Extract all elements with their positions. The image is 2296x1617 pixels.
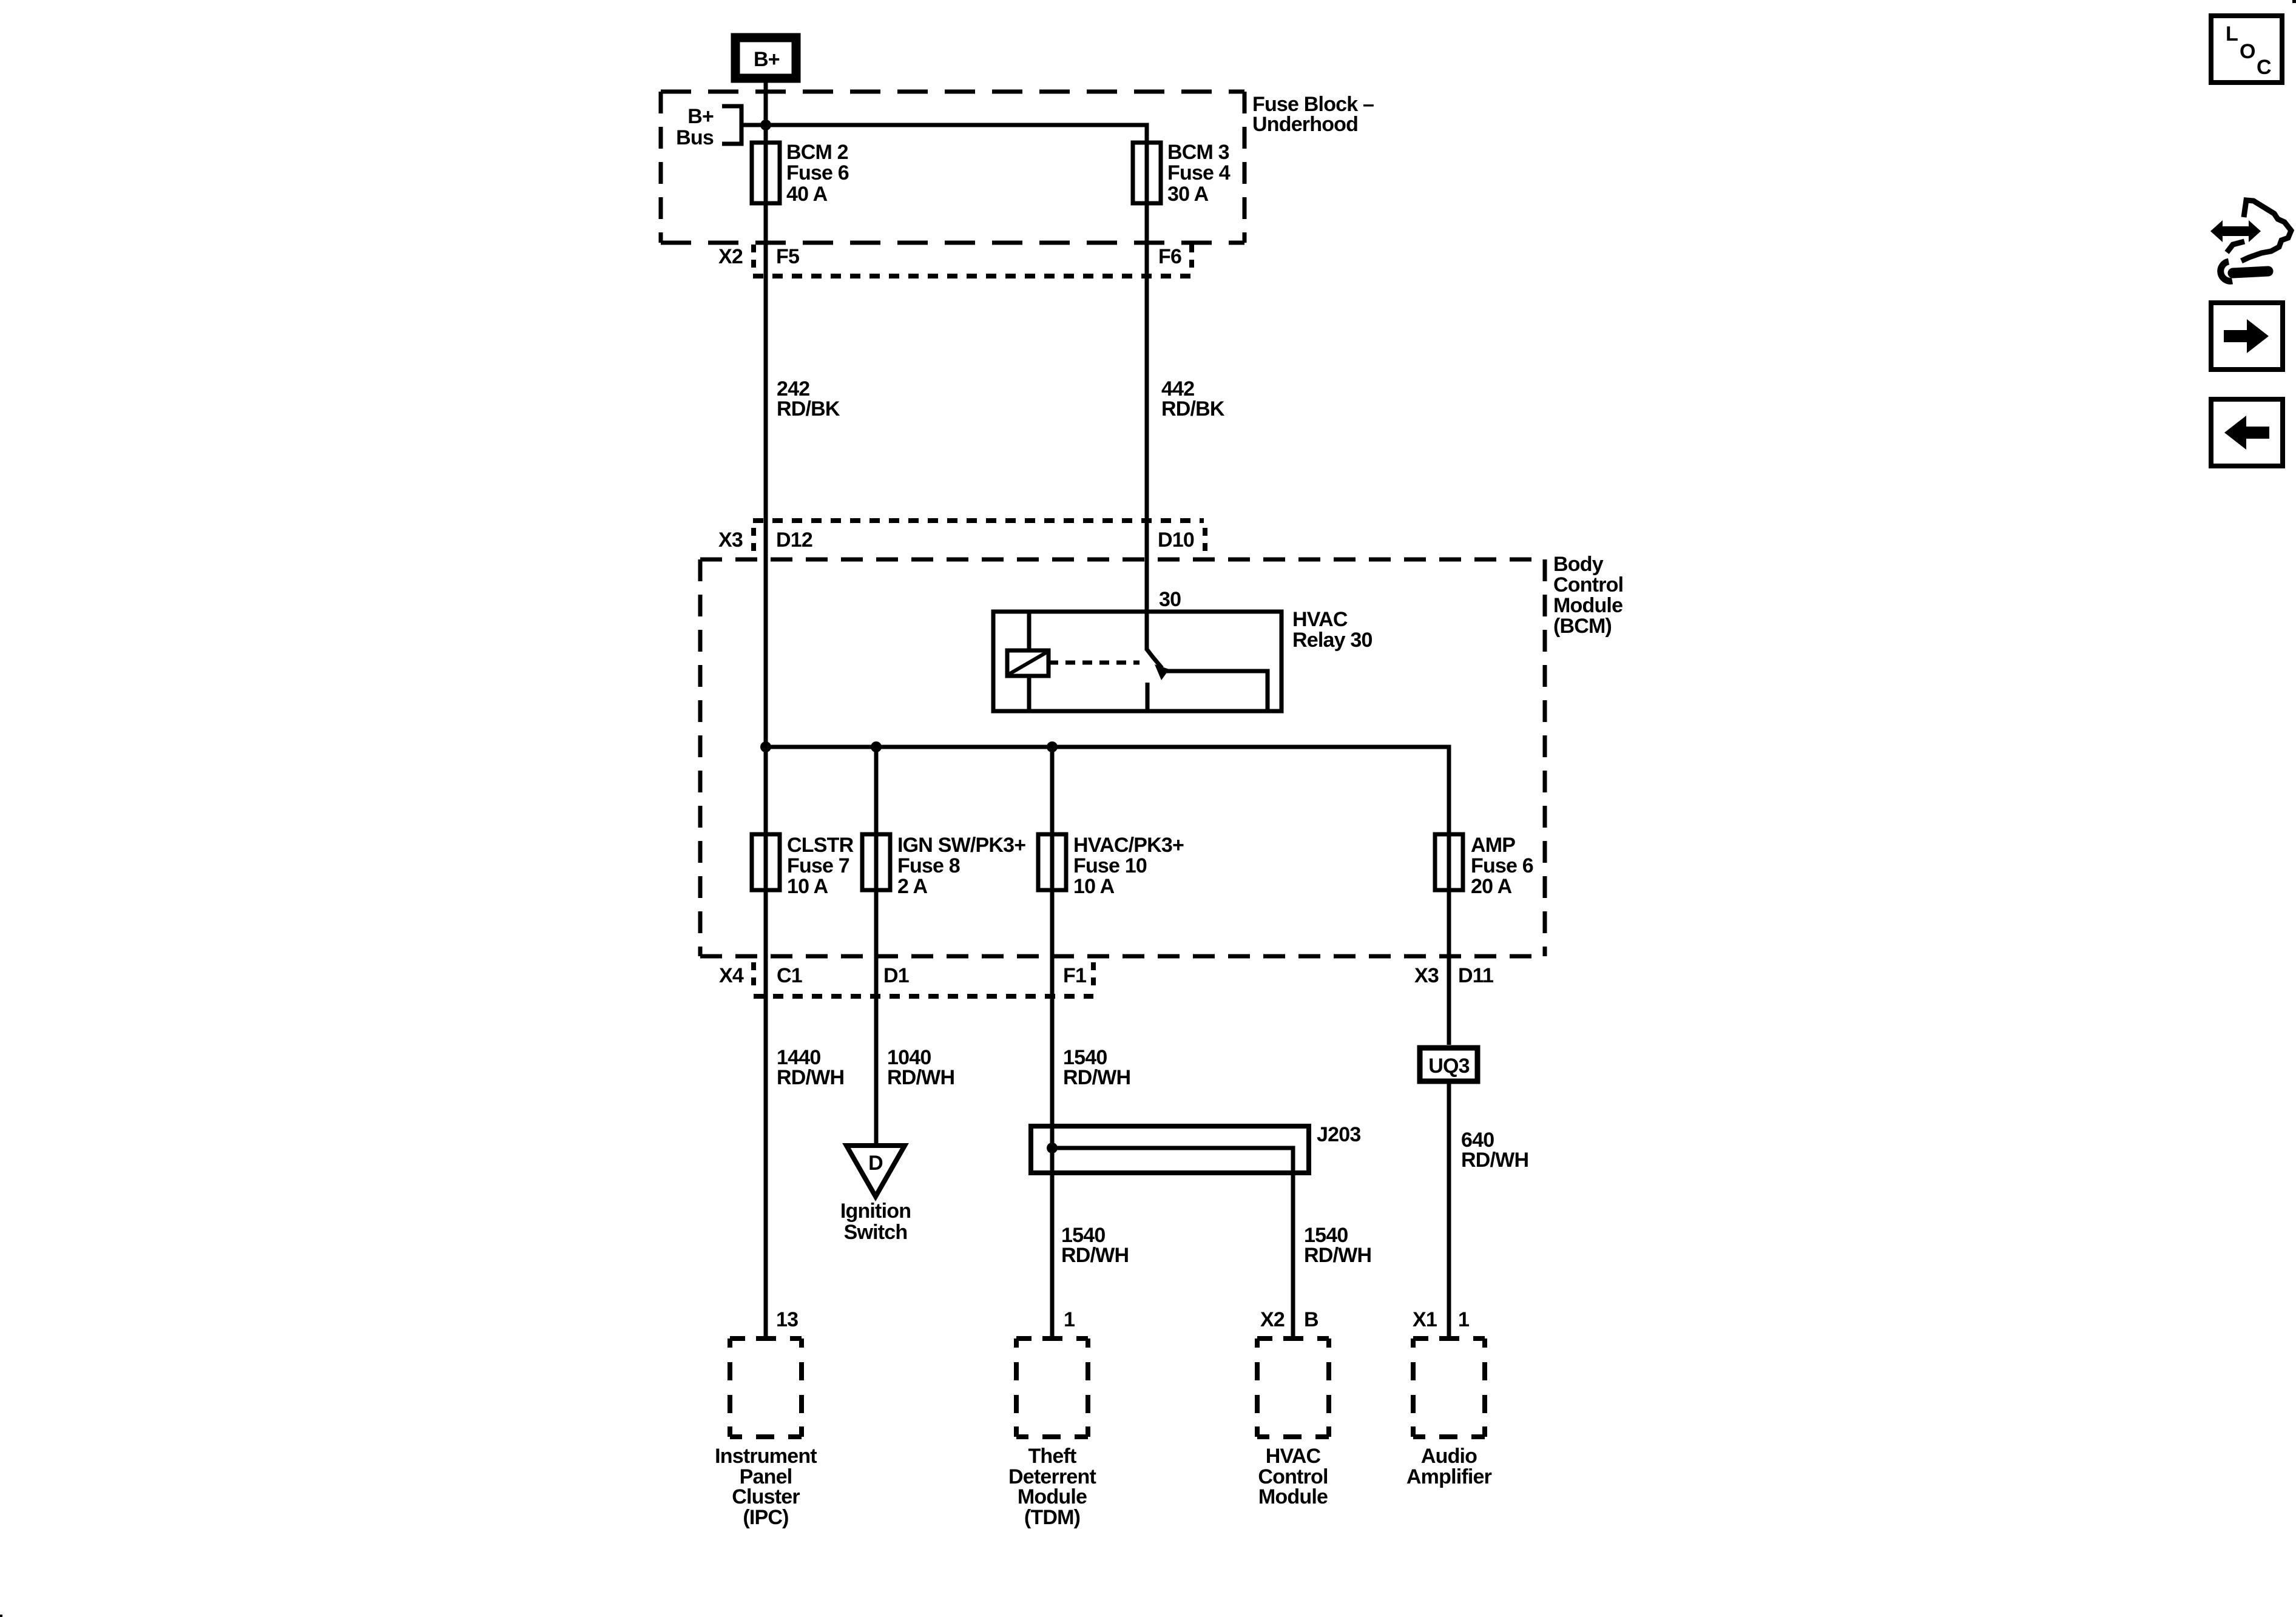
svg-text:C1: C1	[777, 964, 802, 987]
svg-text:Fuse 10: Fuse 10	[1073, 854, 1147, 877]
svg-text:D12: D12	[776, 528, 812, 552]
node: B+ bus junction	[760, 120, 771, 130]
svg-text:Audio: Audio	[1421, 1445, 1477, 1468]
wire label 1540 RD/WH	[1063, 1046, 1130, 1089]
wire label 1040 RD/WH	[887, 1046, 954, 1089]
connector box Audio Amplifier	[1406, 1338, 1492, 1488]
svg-text:RD/BK: RD/BK	[1161, 397, 1225, 420]
svg-text:RD/WH: RD/WH	[1063, 1066, 1130, 1089]
terminal bar HVAC	[1283, 1336, 1303, 1341]
wire label 1540 RD/WH (TDM leg)	[1061, 1224, 1129, 1267]
terminal bar Audio	[1439, 1336, 1459, 1341]
svg-text:AMP: AMP	[1471, 834, 1515, 857]
wire: B+ bus to BCM 3 fuse column	[766, 125, 1147, 650]
connector row X3 (D12 / D10)	[718, 521, 1205, 553]
svg-text:C: C	[2257, 56, 2271, 79]
svg-text:Fuse 7: Fuse 7	[787, 854, 849, 877]
wire label 242 RD/BK	[777, 377, 840, 420]
svg-text:Module: Module	[1258, 1485, 1328, 1508]
option code UQ3 box	[1420, 1048, 1477, 1081]
svg-text:CLSTR: CLSTR	[787, 834, 854, 857]
svg-text:HVAC: HVAC	[1266, 1445, 1321, 1468]
svg-text:F5: F5	[776, 245, 799, 268]
svg-text:Ignition: Ignition	[840, 1200, 911, 1223]
svg-text:J203: J203	[1317, 1123, 1360, 1146]
svg-text:B+: B+	[687, 105, 714, 128]
wire label 1540 RD/WH (HVAC leg)	[1304, 1224, 1371, 1267]
svg-text:Cluster: Cluster	[732, 1485, 800, 1508]
svg-text:Fuse 8: Fuse 8	[897, 854, 960, 877]
svg-text:Module: Module	[1553, 594, 1622, 617]
next-page arrow box	[2211, 303, 2283, 370]
svg-text:UQ3: UQ3	[1428, 1055, 1470, 1078]
svg-text:RD/WH: RD/WH	[1304, 1244, 1371, 1267]
svg-text:RD/WH: RD/WH	[1461, 1149, 1528, 1172]
wire: BCM internal bus to AMP fuse	[766, 747, 1449, 1045]
svg-text:40 A: 40 A	[786, 183, 828, 206]
node: bus junction fuse 10	[1047, 741, 1058, 752]
speck top-right	[2292, 0, 2296, 3]
svg-text:B: B	[1304, 1308, 1319, 1331]
svg-text:X1: X1	[1413, 1308, 1437, 1331]
relay HVAC Relay 30	[993, 608, 1373, 711]
connector box Theft Deterrent Module	[1008, 1338, 1096, 1529]
svg-text:30 A: 30 A	[1167, 183, 1209, 206]
fuse CLSTR Fuse 7 10 A	[752, 834, 854, 898]
pin X1 1 labels (Audio)	[1413, 1308, 1469, 1331]
svg-text:O: O	[2240, 40, 2255, 63]
svg-text:D1: D1	[883, 964, 909, 987]
svg-text:RD/BK: RD/BK	[777, 397, 840, 420]
svg-text:X4: X4	[719, 964, 744, 987]
wire: left column (B+ feed / 242 / 1440 RD-WH)	[764, 83, 768, 1337]
svg-text:D10: D10	[1158, 528, 1194, 552]
wire: UQ3 to Audio Amplifier (640 RD/WH)	[1447, 1084, 1451, 1337]
svg-text:F6: F6	[1158, 245, 1181, 268]
connector box Instrument Panel Cluster	[715, 1338, 817, 1529]
connector box HVAC Control Module	[1257, 1338, 1329, 1508]
connector row X2 (F5 / F6)	[718, 245, 1194, 276]
connector repair icon (arrow, connector outline, wrench)	[2210, 200, 2291, 281]
svg-text:X2: X2	[1260, 1308, 1285, 1331]
svg-text:B+: B+	[754, 48, 780, 71]
svg-text:20 A: 20 A	[1471, 875, 1512, 898]
wire label 442 RD/BK	[1161, 377, 1225, 420]
svg-text:Switch: Switch	[844, 1221, 908, 1244]
svg-text:Instrument: Instrument	[715, 1445, 817, 1468]
svg-text:(BCM): (BCM)	[1553, 615, 1612, 638]
svg-text:Theft: Theft	[1028, 1445, 1076, 1468]
svg-text:30: 30	[1159, 588, 1181, 611]
svg-text:IGN SW/PK3+: IGN SW/PK3+	[897, 834, 1025, 857]
svg-text:X2: X2	[718, 245, 743, 268]
speck bottom-left	[0, 1615, 2, 1617]
wire: fuse 8 column (1040 RD/WH)	[874, 747, 879, 1146]
svg-text:BCM 2: BCM 2	[786, 141, 848, 164]
terminal bar IPC	[756, 1336, 775, 1341]
Fuse Block - Underhood dashed box	[661, 92, 1374, 243]
wire: J203 branch to HVAC Control Module	[1052, 1148, 1293, 1337]
svg-text:Underhood: Underhood	[1252, 113, 1358, 136]
svg-text:X3: X3	[718, 528, 743, 552]
wire label 640 RD/WH	[1461, 1129, 1528, 1172]
splice J203	[1031, 1123, 1360, 1173]
svg-text:(IPC): (IPC)	[743, 1506, 788, 1529]
fuse BCM 3 Fuse 4 30 A	[1133, 141, 1231, 206]
svg-text:1: 1	[1064, 1308, 1075, 1331]
svg-text:10 A: 10 A	[1073, 875, 1115, 898]
previous-page arrow box	[2211, 399, 2283, 466]
svg-text:Body: Body	[1553, 553, 1604, 576]
connector row X4 (C1 / D1 / F1) and X3 / D11	[719, 962, 1493, 996]
svg-text:F1: F1	[1063, 964, 1086, 987]
fuse AMP Fuse 6 20 A	[1435, 834, 1533, 898]
LOC legend box	[2211, 16, 2282, 83]
fuse BCM 2 Fuse 6 40 A	[752, 141, 849, 206]
fuse HVAC/PK3+ Fuse 10 10 A	[1038, 834, 1184, 898]
svg-text:Amplifier: Amplifier	[1406, 1465, 1492, 1488]
B+ Bus bracket	[676, 105, 766, 149]
svg-text:(TDM): (TDM)	[1024, 1506, 1080, 1529]
svg-text:Relay 30: Relay 30	[1292, 629, 1373, 652]
svg-text:RD/WH: RD/WH	[887, 1066, 954, 1089]
svg-text:Bus: Bus	[676, 126, 714, 149]
Body Control Module dashed box	[700, 553, 1623, 956]
pin X2 B labels (HVAC)	[1260, 1308, 1319, 1331]
svg-text:HVAC: HVAC	[1292, 608, 1348, 631]
svg-text:Fuse 6: Fuse 6	[786, 161, 849, 184]
svg-text:X3: X3	[1414, 964, 1439, 987]
svg-text:2 A: 2 A	[897, 875, 927, 898]
terminal bar TDM	[1042, 1336, 1062, 1341]
svg-text:BCM 3: BCM 3	[1167, 141, 1229, 164]
svg-text:D11: D11	[1458, 964, 1493, 987]
svg-text:Fuse 6: Fuse 6	[1471, 854, 1533, 877]
ignition switch feed terminal D	[840, 1146, 911, 1244]
svg-text:RD/WH: RD/WH	[777, 1066, 844, 1089]
svg-text:1: 1	[1458, 1308, 1469, 1331]
svg-text:Control: Control	[1553, 573, 1623, 596]
svg-text:10 A: 10 A	[787, 875, 828, 898]
svg-text:RD/WH: RD/WH	[1061, 1244, 1129, 1267]
svg-text:Fuse 4: Fuse 4	[1167, 161, 1231, 184]
svg-text:L: L	[2226, 22, 2238, 46]
node: bus junction fuse 8	[871, 741, 882, 752]
wire: fuse 10 column (1540 RD/WH)	[1050, 747, 1055, 1337]
svg-text:HVAC/PK3+: HVAC/PK3+	[1073, 834, 1184, 857]
node: bus junction left	[760, 741, 771, 752]
svg-text:13: 13	[776, 1308, 798, 1331]
fuse IGN SW/PK3+ Fuse 8 2 A	[862, 834, 1025, 898]
svg-text:D: D	[868, 1152, 883, 1175]
svg-text:Module: Module	[1018, 1485, 1087, 1508]
B+ terminal	[735, 38, 796, 78]
wire label 1440 RD/WH	[777, 1046, 844, 1089]
